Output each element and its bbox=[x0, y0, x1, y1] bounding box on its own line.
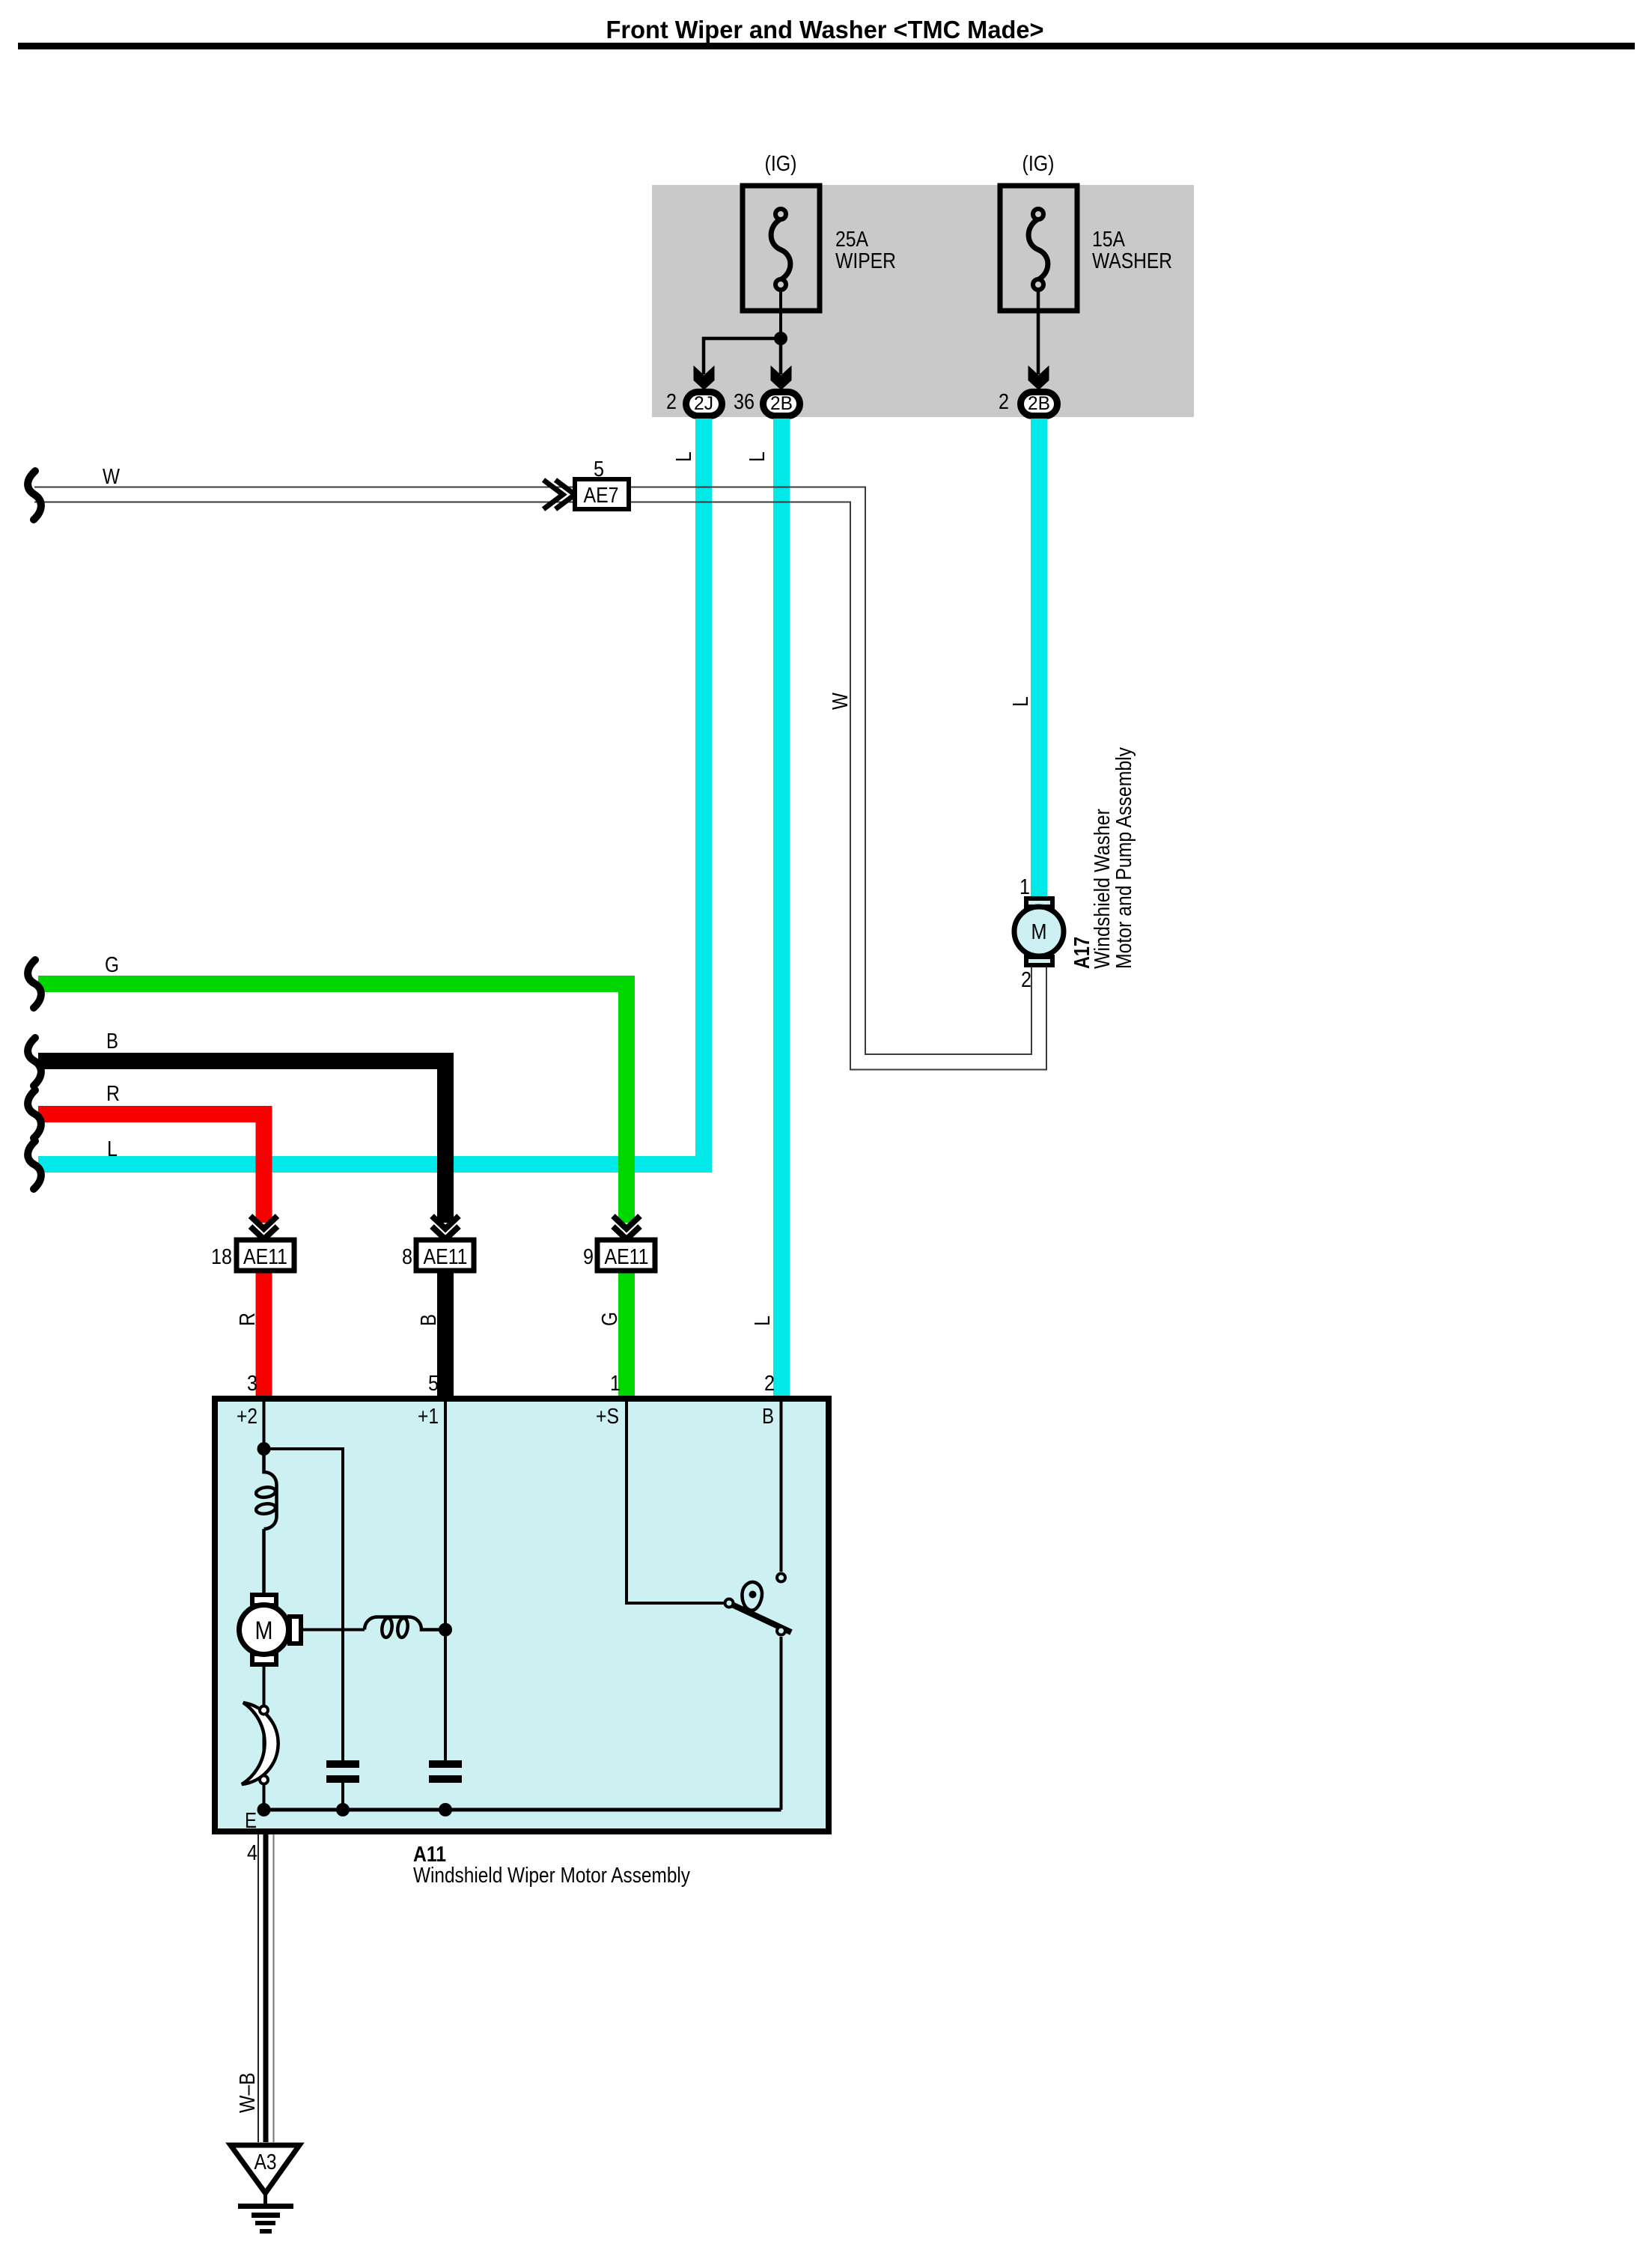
svg-text:R: R bbox=[236, 1313, 260, 1326]
svg-text:1: 1 bbox=[610, 1372, 621, 1396]
field coil (inductor) bbox=[255, 1449, 276, 1593]
cam pivot dot bbox=[749, 1591, 757, 1599]
svg-text:3: 3 bbox=[247, 1372, 257, 1396]
svg-text:8: 8 bbox=[402, 1245, 412, 1269]
svg-text:WASHER: WASHER bbox=[1092, 249, 1172, 273]
svg-text:W–B: W–B bbox=[236, 2073, 260, 2113]
svg-text:AE7: AE7 bbox=[584, 484, 619, 508]
+2 internal wire to junction bbox=[263, 1402, 266, 1449]
junction dot +2 bbox=[257, 1442, 271, 1456]
svg-text:M: M bbox=[255, 1617, 273, 1645]
B internal wire lower bbox=[780, 1637, 783, 1810]
branch wire to capacitor 1 bbox=[264, 1449, 344, 1760]
svg-text:9: 9 bbox=[583, 1245, 594, 1269]
svg-text:(IG): (IG) bbox=[765, 152, 797, 176]
wire L cyan: 2B down to A11 pin 2 bbox=[773, 419, 790, 1396]
brush contact circle top bbox=[260, 1706, 268, 1715]
arrow into AE11 (B) bbox=[432, 1216, 459, 1239]
wire G green bbox=[38, 984, 627, 1223]
wire motor to armature inductor bbox=[301, 1629, 365, 1632]
svg-text:AE11: AE11 bbox=[424, 1245, 468, 1269]
wire B black bbox=[38, 1061, 445, 1223]
svg-text:L: L bbox=[751, 1316, 775, 1326]
title rule bbox=[18, 43, 1635, 49]
connector AE11 (R) bbox=[237, 1240, 294, 1271]
capacitor C1 lower lead bbox=[341, 1783, 344, 1810]
svg-text:G: G bbox=[105, 953, 119, 977]
wire L cyan: washer 2B down to washer motor pin 1 bbox=[1031, 419, 1047, 897]
wire W white: from left edge through AE7 to washer motor pin 2 bbox=[34, 487, 1046, 1070]
wire R red bbox=[38, 1114, 264, 1223]
connector AE7 bbox=[575, 479, 629, 509]
svg-text:2B: 2B bbox=[770, 393, 793, 414]
+S contact circle bbox=[725, 1599, 734, 1608]
junction dot E3 bbox=[439, 1803, 452, 1816]
svg-text:2J: 2J bbox=[694, 393, 713, 414]
connector oval 2J bbox=[686, 392, 722, 416]
junction dot +1/armature bbox=[439, 1623, 452, 1637]
svg-text:M: M bbox=[1031, 920, 1047, 944]
wire B black below AE11 bbox=[437, 1271, 454, 1396]
arrow into AE11 (R) bbox=[251, 1216, 278, 1239]
ground A3 triangle bbox=[231, 2145, 299, 2193]
armature inductor bbox=[365, 1617, 445, 1638]
junction dot E2 bbox=[336, 1803, 350, 1816]
svg-text:E: E bbox=[245, 1809, 257, 1833]
ground bar 4 bbox=[260, 2229, 272, 2234]
park switch arm bbox=[732, 1605, 791, 1632]
svg-text:L: L bbox=[746, 451, 769, 462]
B contact circle bbox=[777, 1574, 785, 1582]
pin 1 terminal tab bbox=[1026, 899, 1052, 907]
svg-text:15A: 15A bbox=[1092, 228, 1126, 252]
connector oval 2B washer bbox=[1021, 392, 1058, 416]
svg-text:B: B bbox=[417, 1314, 441, 1326]
B internal wire upper bbox=[780, 1402, 783, 1572]
svg-text:Windshield Washer: Windshield Washer bbox=[1091, 809, 1115, 969]
wire: junction to 2B bbox=[779, 338, 783, 374]
ground stem bbox=[263, 2193, 267, 2204]
squiggle L bbox=[28, 1141, 41, 1189]
svg-text:2: 2 bbox=[1021, 968, 1031, 992]
ground bar 3 bbox=[255, 2221, 275, 2225]
junction dot bbox=[774, 332, 787, 345]
ground bar 1 bbox=[238, 2204, 293, 2209]
svg-text:1: 1 bbox=[1019, 875, 1030, 899]
commutator crescent bbox=[242, 1703, 278, 1784]
relay block (gray box) bbox=[652, 185, 1194, 417]
ground bar 2 bbox=[252, 2213, 280, 2218]
wire: wiper fuse to junction bbox=[779, 291, 782, 338]
+S internal wire bbox=[627, 1402, 724, 1603]
svg-text:5: 5 bbox=[594, 457, 604, 481]
svg-text:AE11: AE11 bbox=[605, 1245, 649, 1269]
svg-text:18: 18 bbox=[211, 1245, 232, 1269]
svg-text:Motor and Pump Assembly: Motor and Pump Assembly bbox=[1112, 747, 1136, 969]
arrow into washer 2B bbox=[1028, 365, 1049, 390]
svg-text:(IG): (IG) bbox=[1022, 152, 1055, 176]
wire: junction to 2J branch bbox=[704, 338, 781, 374]
svg-text:4: 4 bbox=[247, 1841, 257, 1865]
svg-text:W: W bbox=[103, 465, 121, 489]
A11 wiper motor assembly box bbox=[215, 1399, 829, 1831]
connector AE11 (B) bbox=[416, 1240, 474, 1271]
squiggle G bbox=[28, 960, 41, 1008]
wire motor bottom to E bbox=[263, 1667, 266, 1810]
wire: washer fuse down bbox=[1037, 291, 1040, 374]
svg-text:L: L bbox=[1009, 696, 1033, 707]
svg-text:WIPER: WIPER bbox=[835, 249, 896, 273]
svg-text:B: B bbox=[762, 1405, 774, 1429]
svg-text:W: W bbox=[829, 692, 853, 710]
svg-text:AE11: AE11 bbox=[243, 1245, 287, 1269]
arrow into 2J bbox=[694, 365, 715, 390]
svg-text:2: 2 bbox=[764, 1372, 775, 1396]
park switch cam (teardrop) bbox=[742, 1582, 761, 1611]
wire L cyan: 2J down, left to edge bbox=[38, 419, 704, 1164]
svg-text:L: L bbox=[107, 1137, 118, 1161]
wire continuation squiggle (W) bbox=[28, 471, 41, 520]
svg-text:R: R bbox=[106, 1082, 120, 1106]
svg-text:A3: A3 bbox=[254, 2150, 277, 2174]
+1 internal vertical wire bbox=[444, 1402, 447, 1760]
wire R red below AE11 bbox=[256, 1271, 272, 1396]
svg-text:+2: +2 bbox=[237, 1405, 257, 1429]
pin 2 terminal tab bbox=[1026, 957, 1052, 965]
wire G green below AE11 bbox=[618, 1271, 635, 1396]
svg-text:2: 2 bbox=[666, 390, 677, 414]
capacitor C2 bbox=[429, 1760, 462, 1783]
arrow chevrons into AE7 bbox=[543, 480, 575, 509]
svg-text:B: B bbox=[106, 1030, 118, 1053]
connector oval 2B bbox=[763, 392, 800, 416]
svg-text:Front Wiper and Washer <TMC Ma: Front Wiper and Washer <TMC Made> bbox=[606, 16, 1044, 43]
motor body bbox=[1014, 907, 1064, 956]
fuse WASHER 15A bbox=[1000, 186, 1077, 311]
motor M (wiper) bbox=[240, 1595, 302, 1664]
E bus line bbox=[264, 1808, 781, 1812]
svg-text:+1: +1 bbox=[418, 1405, 439, 1429]
svg-text:25A: 25A bbox=[835, 228, 869, 252]
fuse WIPER 25A bbox=[743, 186, 820, 311]
capacitor C1 bbox=[326, 1760, 359, 1783]
junction dot E1 bbox=[257, 1803, 271, 1816]
connector AE11 (G) bbox=[597, 1240, 655, 1271]
squiggle R bbox=[28, 1090, 41, 1138]
svg-text:G: G bbox=[598, 1312, 622, 1326]
svg-text:36: 36 bbox=[734, 390, 755, 414]
switch arm end circle bbox=[777, 1627, 785, 1635]
svg-text:L: L bbox=[672, 451, 696, 462]
svg-text:5: 5 bbox=[428, 1372, 439, 1396]
arrow into AE11 (G) bbox=[613, 1216, 640, 1239]
arrow into 2B bbox=[771, 365, 792, 390]
svg-text:2B: 2B bbox=[1028, 393, 1050, 414]
svg-text:+S: +S bbox=[596, 1405, 619, 1429]
svg-text:2: 2 bbox=[999, 390, 1009, 414]
squiggle B bbox=[28, 1038, 41, 1086]
wire W-B: A11 pin 4 to ground bbox=[258, 1834, 274, 2142]
washer motor A17 bbox=[1014, 899, 1064, 965]
brush contact circle bottom bbox=[260, 1776, 268, 1784]
svg-text:Windshield Wiper Motor Assembl: Windshield Wiper Motor Assembly bbox=[413, 1864, 690, 1888]
